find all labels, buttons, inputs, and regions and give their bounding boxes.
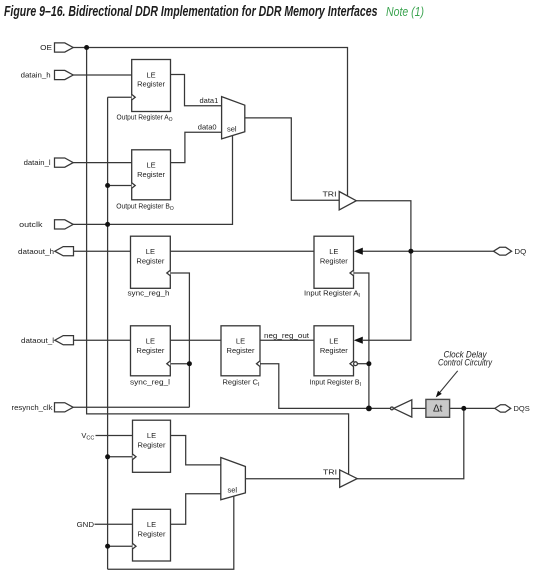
svg-text:OE: OE [40,43,52,52]
wire clock to Output Register A [108,96,132,98]
wire bottom mux output to bottom TRI [245,478,339,480]
LE register box sync_reg_h [131,236,171,288]
wire DQ branch down to Input Register B [363,251,411,340]
wire delta-t box to DQS pin [450,407,495,409]
data input arrowhead Input Register B [354,337,363,344]
wire outclk horizontal to top mux sel [73,136,233,225]
clock caret GND register [133,543,137,549]
wire sync_reg_l to Register C [170,339,221,341]
tri-state buffer TRI bottom [340,470,358,487]
wire clock to VCC register [108,456,133,458]
wire resynch_clk [74,406,190,408]
svg-text:datain_h: datain_h [21,71,51,80]
wire datain_h to Output Register A [73,74,132,76]
svg-text:sync_reg_l: sync_reg_l [130,377,170,386]
wire OE vertical branch down left side [87,48,349,475]
bidirectional pin DQ [494,247,512,255]
svg-text:Register CI: Register CI [223,377,260,388]
clock caret Output Register B [132,183,136,189]
svg-text:data0: data0 [198,122,217,131]
clock caret Input Register A [350,270,354,276]
svg-text:Δt: Δt [433,404,443,415]
svg-text:Note (1): Note (1) [386,4,424,19]
clock caret sync_reg_h [167,270,171,276]
junction dot sync_reg_l clock [187,361,192,366]
svg-text:GND: GND [77,520,95,529]
wire Output Register A output data1 [171,75,222,106]
wire sync_reg_h clock [170,273,189,407]
svg-text:Input Register AI: Input Register AI [304,288,360,299]
svg-text:TRI: TRI [323,467,337,476]
wire datain_l to Output Register B [73,162,132,164]
wire neg_reg_out Register C to Input Register B [260,339,314,341]
junction dot inverter output [366,406,372,412]
wire inverter to delta-t box [412,407,426,409]
output pin dataout_h [55,247,74,256]
LE register box GND register [133,509,171,561]
wire dataout_l from sync_reg_l [74,339,131,341]
mux top sel [222,97,245,139]
svg-text:dataout_h: dataout_h [18,247,54,256]
wire GND to register [95,523,133,525]
svg-text:Clock DelayControl Circuitry: Clock DelayControl Circuitry [438,349,492,367]
clock caret Register C [257,361,261,367]
clock caret Output Register A [132,94,136,100]
svg-text:resynch_clk: resynch_clk [12,403,53,412]
junction dot OE branch [84,45,89,50]
wire clock to GND register [108,545,133,547]
input pin outclk [55,220,74,229]
LE register box Output Register A [132,60,171,112]
data input arrowhead Input Register A [354,248,363,255]
bidirectional pin DQS [495,405,511,412]
wire Output Register B output data0 [171,132,222,162]
input pin datain_h [55,70,74,79]
junction dot DQ [408,249,413,254]
wire outclk bottom to bottom mux sel [108,496,234,569]
callout arrow to delta-t [439,371,458,394]
input pin OE [55,43,74,52]
LE register box Register C [221,326,260,376]
wire OE horizontal to top TRI enable [73,48,348,197]
input pin datain_l [55,158,74,167]
inverter for DQS clock [394,400,412,417]
wire dataout_h from sync_reg_h [74,250,131,252]
svg-text:sync_reg_h: sync_reg_h [128,288,170,297]
svg-text:Figure 9–16. Bidirectional DDR: Figure 9–16. Bidirectional DDR Implement… [4,4,378,20]
output pin dataout_l [55,336,74,345]
junction dot Output Register B clock [105,183,110,188]
wire sync_reg_l clock [170,363,189,365]
LE register box Input Register A [314,236,354,288]
wire DQ line [362,250,494,252]
clock caret Input Register B [350,361,354,367]
svg-text:Output Register AO: Output Register AO [117,113,174,124]
clock caret sync_reg_l [167,361,171,367]
wire DQS branch down to bottom TRI output [357,408,464,478]
delta-t delay box [426,399,450,417]
inverter bubble [391,407,394,410]
wire Input Register A clock [354,273,369,408]
wire VCC to register [96,435,133,437]
mux bottom sel [221,458,246,500]
svg-text:DQS: DQS [514,404,530,413]
svg-text:sel: sel [227,124,237,133]
junction dot Input Register B clock [366,361,371,366]
junction dot VCC register clock [105,454,110,459]
svg-text:sel: sel [228,485,238,494]
wire top TRI output down to DQ line [356,201,411,252]
wire clock to Output Register B [108,185,132,187]
svg-text:Input Register BI: Input Register BI [310,377,362,388]
wire outclk vertical bus [107,97,109,569]
svg-text:TRI: TRI [323,190,337,199]
svg-text:Output Register BO: Output Register BO [116,202,174,213]
wire top mux output to TRI [245,118,339,200]
svg-text:data1: data1 [200,96,219,105]
svg-text:DQ: DQ [514,247,526,256]
LE register box Input Register B [314,326,354,376]
input pin resynch_clk [55,403,74,412]
LE register box sync_reg_l [131,326,171,376]
junction dot DQS [461,406,466,411]
wire VCC register output to bottom mux [171,436,221,465]
svg-text:dataout_l: dataout_l [21,336,54,345]
svg-text:datain_l: datain_l [24,158,51,167]
wire GND register output to bottom mux [171,494,221,524]
junction dot outclk [105,222,110,227]
tri-state buffer TRI top [339,192,356,210]
clock caret VCC register [133,454,137,460]
LE register box VCC register [133,420,171,472]
wire Register C clock [260,364,390,409]
clock bubble Input Register B [354,362,358,366]
wire Input Register B clock from bubble [357,363,369,365]
junction dot GND register clock [105,544,110,549]
LE register box Output Register B [132,150,171,200]
svg-text:outclk: outclk [19,220,43,229]
wire Input Register A output to sync_reg_h [170,250,314,252]
svg-text:neg_reg_out: neg_reg_out [264,331,310,340]
